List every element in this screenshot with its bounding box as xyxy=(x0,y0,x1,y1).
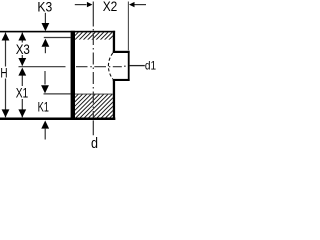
branch upper ledge xyxy=(113,51,130,53)
svg-text:X1: X1 xyxy=(16,84,29,100)
svg-text:X2: X2 xyxy=(103,0,118,14)
K3 lower arrow xyxy=(42,39,50,47)
body bottom edge xyxy=(0,118,115,121)
dimension X2 left tail xyxy=(75,4,87,6)
K1 lower arrow xyxy=(41,121,49,129)
body right wall lower xyxy=(113,79,115,120)
body top wall hatch xyxy=(62,32,121,40)
svg-text:X3: X3 xyxy=(16,41,30,57)
X3 top arrow xyxy=(18,33,26,41)
svg-text:K3: K3 xyxy=(37,0,52,14)
K3 upper arrow xyxy=(42,23,50,31)
vertical centerline d xyxy=(92,2,94,136)
dimension X3 line xyxy=(21,33,23,66)
H bottom arrow xyxy=(2,109,10,117)
K1 lower tail xyxy=(44,129,46,140)
K3 lower extension line xyxy=(44,37,71,39)
horizontal centerline d1 xyxy=(19,65,126,68)
dimension K3 line upper xyxy=(44,13,46,24)
hidden bore arc d1 xyxy=(108,53,112,79)
svg-text:H: H xyxy=(0,65,7,80)
X2 right arrow xyxy=(129,2,135,7)
dimension K1 upper arrow line xyxy=(44,71,46,85)
X1 top arrow xyxy=(18,68,26,76)
X2 right tail xyxy=(135,4,147,6)
X3 bottom arrow xyxy=(18,58,26,66)
branch end face d1 xyxy=(128,51,130,81)
X2 left arrow xyxy=(87,2,93,7)
K1 upper extension line xyxy=(44,93,71,95)
X1 bottom arrow xyxy=(18,109,26,117)
svg-text:K1: K1 xyxy=(38,98,50,114)
body bottom wall hatch xyxy=(46,94,134,118)
body top edge xyxy=(0,31,115,33)
body right wall upper xyxy=(113,31,115,53)
dimension H line xyxy=(5,33,7,118)
dimension X1 line xyxy=(21,75,23,117)
K3 lower tail xyxy=(44,47,46,53)
svg-text:d: d xyxy=(91,135,98,150)
H top arrow xyxy=(2,33,10,41)
branch lower ledge xyxy=(113,79,130,81)
K1 upper arrow xyxy=(41,85,49,93)
d1 leader line xyxy=(130,65,145,67)
svg-text:d1: d1 xyxy=(145,59,156,73)
spigot face extension line xyxy=(127,2,129,51)
body left wall xyxy=(71,31,75,120)
bore bottom line xyxy=(75,93,113,96)
